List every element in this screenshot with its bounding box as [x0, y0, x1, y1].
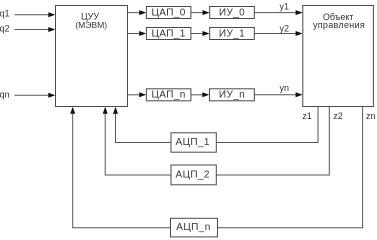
block АЦП_1 ADC [171, 133, 216, 152]
wire ИУ_1 output y2 to object [254, 31, 302, 36]
svg-text:ИУ_n: ИУ_n [219, 90, 245, 101]
wire ИУ_0 output y1 to object [254, 10, 302, 15]
svg-text:ИУ_1: ИУ_1 [219, 28, 245, 39]
wire ЦАП_n to ИУ_n [191, 92, 209, 97]
svg-text:z1: z1 [302, 111, 312, 121]
svg-text:АЦП_n: АЦП_n [176, 222, 210, 233]
wire qn into ЦУУ [15, 93, 56, 98]
svg-text:q1: q1 [0, 9, 10, 19]
svg-text:АЦП_2: АЦП_2 [176, 169, 210, 180]
wire ЦАП_0 to ИУ_0 [191, 10, 210, 15]
wire АЦП_1 output up into ЦУУ [113, 107, 171, 143]
block ИУ_0 actuator [210, 7, 255, 19]
svg-text:ЦАП_0: ЦАП_0 [151, 7, 185, 18]
block АЦП_n ADC [171, 218, 218, 237]
wire ЦАП_1 to ИУ_1 [191, 31, 210, 36]
block ЦАП_n DAC [146, 89, 191, 101]
svg-text:ЦАП_1: ЦАП_1 [151, 28, 185, 39]
svg-text:y2: y2 [280, 24, 290, 34]
wire ЦУУ to ЦАП_1 [128, 31, 147, 36]
svg-text:y1: y1 [280, 2, 290, 12]
svg-text:ИУ_0: ИУ_0 [219, 7, 245, 18]
wire АЦП_2 output up into ЦУУ [103, 107, 171, 175]
svg-text:(МЭВМ): (МЭВМ) [75, 20, 107, 30]
block U1 ЦУУ (МЭВМ) central control unit [56, 6, 128, 107]
svg-text:ЦАП_n: ЦАП_n [151, 90, 185, 101]
block АЦП_2 ADC [171, 165, 216, 185]
wire zn from object down and left to АЦП_n [218, 107, 363, 228]
svg-text:qn: qn [0, 89, 10, 99]
block ИУ_1 actuator [210, 28, 255, 40]
wire q1 into ЦУУ [15, 12, 56, 17]
block Объект управления (controlled object) [303, 6, 374, 107]
wire АЦП_n output up into ЦУУ [70, 107, 170, 228]
wire q2 into ЦУУ [15, 27, 56, 32]
svg-text:yn: yn [280, 83, 290, 93]
svg-text:управления: управления [313, 20, 365, 30]
svg-text:zn: zn [366, 111, 376, 121]
block ЦАП_0 DAC [146, 7, 191, 19]
wire ИУ_n output yn to object [254, 92, 302, 97]
wire ЦУУ to ЦАП_0 [128, 10, 147, 15]
wire z2 from object down and left to АЦП_2 [216, 107, 329, 175]
svg-text:АЦП_1: АЦП_1 [176, 137, 210, 148]
svg-text:q2: q2 [0, 23, 10, 33]
block ЦАП_1 DAC [146, 28, 191, 40]
wire ЦУУ to ЦАП_n [128, 92, 147, 97]
wire z1 from object down and left to АЦП_1 [216, 107, 318, 143]
svg-text:z2: z2 [333, 111, 343, 121]
block ИУ_n actuator [210, 89, 255, 101]
